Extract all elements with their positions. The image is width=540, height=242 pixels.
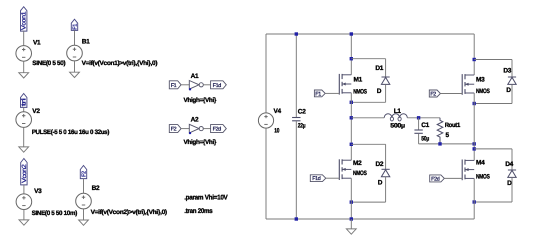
voltage source V3	[16, 194, 32, 210]
diode D1	[381, 77, 389, 84]
svg-text:Rout1: Rout1	[445, 122, 461, 129]
value 10	[274, 127, 279, 134]
label B1	[82, 39, 90, 46]
nmos M3	[462, 74, 474, 95]
wire mid to L1	[351, 117, 384, 119]
ground V1	[19, 73, 29, 78]
label D3 value D	[506, 87, 511, 94]
wire tri to V2	[23, 107, 25, 112]
svg-text:Vcon1: Vcon1	[21, 11, 28, 30]
capacitor C1	[414, 130, 422, 133]
svg-text:Vhigh={Vhi}: Vhigh={Vhi}	[184, 139, 217, 146]
svg-text:Vcon2: Vcon2	[21, 163, 28, 182]
svg-text:F2d: F2d	[431, 176, 440, 182]
label M2	[353, 160, 362, 167]
svg-text:A2: A2	[191, 116, 199, 123]
wire D1 top branch	[351, 58, 385, 60]
net flag Vcon1	[21, 7, 28, 31]
svg-text:NMOS: NMOS	[476, 174, 490, 181]
wire D2 vertical bottom	[385, 177, 387, 202]
svg-text:D3: D3	[503, 68, 511, 75]
nmos M2	[339, 159, 351, 180]
label D4 value D	[507, 180, 512, 187]
wire V4 bottom	[265, 128, 267, 219]
junction M2 leg bottom	[350, 217, 353, 220]
label D3	[503, 68, 511, 75]
wire bridge ground stub	[350, 219, 352, 229]
junction D3 top	[473, 58, 476, 61]
svg-text:22µ: 22µ	[298, 122, 306, 129]
junction C2 bottom	[295, 217, 298, 220]
label D1 value D	[377, 88, 382, 95]
label M3	[476, 77, 485, 84]
voltage source V2	[16, 112, 32, 128]
bv source B1	[67, 45, 83, 61]
inductor L1	[384, 114, 407, 121]
wire D1 vertical top	[385, 59, 387, 77]
wire L1 to C1	[407, 117, 440, 119]
port flag F1 gate M1	[314, 90, 325, 97]
svg-text:F1: F1	[315, 91, 321, 97]
wire D2 vertical top	[385, 144, 387, 169]
junction D2 top	[350, 143, 353, 146]
wire Vcon2 to V3	[23, 185, 25, 194]
bv source B2	[76, 193, 92, 209]
wire C1 bottom stub	[418, 134, 420, 144]
ground V3	[19, 220, 29, 225]
wire B2 to ground	[83, 209, 85, 220]
value SINE(0 5 50 10m)	[32, 210, 78, 217]
value 500u	[390, 122, 405, 129]
wire A2 to F2d	[203, 128, 210, 130]
port flag F1 input	[169, 81, 181, 89]
ground B1	[70, 72, 80, 77]
junction D2 bottom	[350, 200, 353, 203]
svg-text:D: D	[507, 180, 512, 187]
voltage source V1	[16, 46, 32, 62]
svg-text:D1: D1	[375, 65, 383, 72]
svg-text:B2: B2	[92, 185, 100, 192]
wire D4 vertical bottom	[511, 177, 513, 202]
wire M1 source to mid	[350, 93, 352, 160]
value NMOS M1	[353, 88, 367, 95]
buffer A1	[189, 81, 203, 91]
label Rout1	[445, 122, 461, 129]
wire V3 to ground	[23, 210, 25, 220]
wire V2 to ground	[23, 127, 25, 146]
svg-text:F2: F2	[430, 92, 436, 98]
wire C2 bottom	[295, 121, 297, 219]
wire D3 vertical bottom	[511, 84, 513, 103]
wire F1 to B1	[74, 30, 76, 45]
wire M1 drain	[350, 34, 352, 75]
svg-text:V=if(v(Vcon2)>v(tri),{Vhi},0): V=if(v(Vcon2)>v(tri),{Vhi},0)	[91, 209, 167, 216]
value NMOS M4	[476, 174, 490, 181]
label M1	[354, 77, 363, 84]
label D2 value D	[378, 180, 383, 187]
wire D2 top branch	[351, 143, 385, 145]
nmos M4	[462, 160, 474, 181]
svg-text:V2: V2	[32, 108, 40, 115]
svg-text:V=if(v(Vcon1)>v(tri),{Vhi},0): V=if(v(Vcon1)>v(tri),{Vhi},0)	[82, 60, 158, 67]
svg-text:Vhigh={Vhi}: Vhigh={Vhi}	[184, 97, 217, 104]
value PULSE	[32, 129, 110, 136]
wire M4 source	[473, 178, 475, 219]
svg-text:C2: C2	[298, 109, 306, 116]
label V3	[34, 188, 42, 195]
value Vhigh	[184, 97, 217, 104]
wire output bottom rail	[419, 143, 475, 145]
wire Vcon1 to V1	[23, 31, 25, 45]
svg-text:D: D	[378, 180, 383, 187]
label M4	[476, 160, 485, 167]
wire F2d to M4 gate	[444, 177, 462, 179]
value NMOS M2	[353, 170, 367, 177]
svg-text:B1: B1	[82, 39, 90, 46]
wire M3 drain	[473, 34, 475, 75]
value 22u	[298, 122, 306, 129]
net flag F1 source	[71, 19, 78, 30]
svg-text:V4: V4	[274, 108, 282, 115]
label D1	[375, 65, 383, 72]
wire D3 top branch	[474, 59, 512, 61]
svg-text:M1: M1	[354, 77, 363, 84]
wire F1 to A1	[181, 84, 189, 86]
wire M3 source to M4	[473, 93, 475, 160]
label V1	[33, 39, 41, 46]
label B2	[92, 185, 100, 192]
wire D3 bottom branch	[474, 103, 512, 105]
value B2	[91, 209, 167, 216]
svg-text:D4: D4	[505, 161, 513, 168]
label A1	[191, 73, 199, 80]
label D2	[376, 161, 384, 168]
value NMOS M3	[476, 88, 490, 95]
wire F1d to M2 gate	[326, 177, 340, 179]
svg-text:F1d: F1d	[213, 83, 222, 89]
svg-text:SINE(0 5 50 10m): SINE(0 5 50 10m)	[32, 210, 78, 217]
value SINE(0 5 50)	[32, 60, 65, 67]
wire top rail	[266, 33, 474, 35]
svg-text:50µ: 50µ	[421, 135, 429, 142]
svg-text:NMOS: NMOS	[353, 88, 367, 95]
wire F1 to M1 gate	[325, 92, 339, 94]
port flag F2 gate M3	[429, 90, 440, 98]
wire D4 vertical top	[511, 149, 513, 170]
port flag F1d gate M2	[310, 175, 326, 182]
svg-text:A1: A1	[191, 73, 199, 80]
wire C1 top stub	[418, 118, 420, 130]
value 50u	[421, 135, 429, 142]
wire F2 to M3 gate	[440, 93, 462, 95]
svg-text:F2: F2	[171, 127, 177, 133]
label V4	[274, 108, 282, 115]
svg-text:L1: L1	[394, 108, 402, 115]
svg-text:10: 10	[274, 127, 279, 134]
value 5	[446, 132, 450, 139]
svg-text:F2d: F2d	[213, 127, 222, 133]
buffer A2	[189, 124, 203, 134]
port flag F2d gate M4	[430, 175, 445, 183]
svg-text:F1d: F1d	[312, 176, 321, 182]
junction D1 bottom	[350, 101, 353, 104]
junction C2 top	[295, 32, 298, 35]
junction C1 top	[417, 116, 420, 119]
svg-text:.tran 20ms: .tran 20ms	[184, 208, 213, 215]
junction output right	[473, 142, 476, 145]
wire F2 to A2	[181, 128, 189, 130]
svg-text:500µ: 500µ	[390, 122, 405, 129]
voltage source V4	[258, 113, 273, 128]
wire M2 source	[350, 178, 352, 219]
wire D2 bottom branch	[351, 201, 385, 203]
directive .tran	[184, 208, 213, 215]
svg-text:V1: V1	[33, 39, 41, 46]
value Vhigh	[184, 139, 217, 146]
wire D1 bottom branch	[351, 101, 385, 103]
svg-text:C1: C1	[421, 122, 429, 129]
wire V4 top	[265, 34, 267, 113]
label V2	[32, 108, 40, 115]
value B1	[82, 60, 158, 67]
wire D3 vertical top	[511, 60, 513, 78]
svg-text:F1: F1	[73, 24, 79, 30]
junction D4 top	[473, 147, 476, 150]
wire C2 top	[295, 34, 297, 117]
wire bottom rail	[266, 218, 474, 220]
ground bridge	[346, 229, 356, 234]
svg-text:M4: M4	[476, 160, 485, 167]
net flag F2 source	[80, 166, 87, 179]
wire B1 to ground	[74, 61, 76, 72]
wire V1 to ground	[23, 61, 25, 72]
capacitor C2	[292, 118, 300, 121]
junction D4 bottom	[473, 200, 476, 203]
junction D1 top	[350, 57, 353, 60]
svg-text:D: D	[377, 88, 382, 95]
port flag F1d output	[211, 81, 227, 89]
wire D1 vertical bottom	[385, 84, 387, 102]
svg-text:D2: D2	[376, 161, 384, 168]
junction mid rail	[350, 116, 353, 119]
svg-text:M2: M2	[353, 160, 362, 167]
svg-text:tri: tri	[21, 99, 28, 107]
svg-text:PULSE(-5 5 0 16u 16u 0 32us): PULSE(-5 5 0 16u 16u 0 32us)	[32, 129, 110, 136]
svg-text:D: D	[506, 87, 511, 94]
label A2	[191, 116, 199, 123]
wire F2 to B2	[83, 179, 85, 194]
label D4	[505, 161, 513, 168]
svg-text:NMOS: NMOS	[476, 88, 490, 95]
svg-text:M3: M3	[476, 77, 485, 84]
net flag Vcon2	[21, 159, 28, 185]
junction M1 rail	[350, 32, 353, 35]
resistor Rout1	[437, 118, 443, 144]
wire D4 top branch	[474, 148, 512, 150]
label L1	[394, 108, 402, 115]
diode D3	[508, 77, 516, 84]
diode D2	[381, 169, 389, 176]
svg-text:F1: F1	[171, 83, 177, 89]
junction D3 bottom	[473, 102, 476, 105]
svg-text:SINE(0 5 50): SINE(0 5 50)	[32, 60, 65, 67]
svg-text:NMOS: NMOS	[353, 170, 367, 177]
nmos M1	[339, 74, 351, 95]
ground V2	[19, 147, 29, 152]
port flag F2 input	[169, 125, 181, 133]
ground B2	[79, 220, 89, 225]
wire D4 bottom branch	[474, 201, 512, 203]
svg-text:V3: V3	[34, 188, 42, 195]
junction Rout1 bottom	[438, 142, 441, 145]
label C1	[421, 122, 429, 129]
svg-text:F2: F2	[82, 171, 88, 177]
label C2	[298, 109, 306, 116]
svg-text:.param Vhi=10V: .param Vhi=10V	[184, 194, 228, 201]
wire A1 to F1d	[203, 84, 210, 86]
directive .param	[184, 194, 228, 201]
port flag F2d output	[211, 125, 227, 133]
net flag tri	[21, 94, 28, 108]
diode D4	[508, 170, 516, 177]
